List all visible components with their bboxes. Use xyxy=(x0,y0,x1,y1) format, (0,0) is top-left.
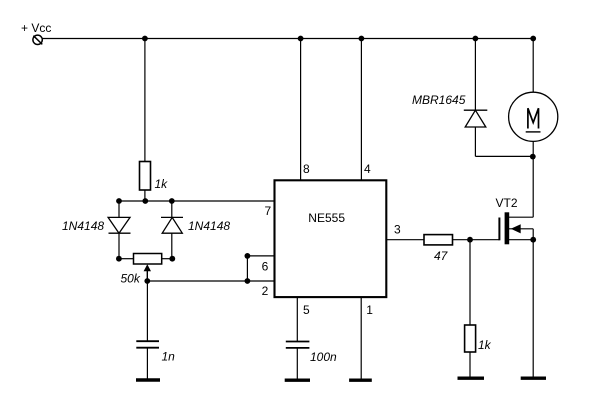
transistor VT2 body arrowhead xyxy=(511,224,521,233)
wire pin 1 to ground xyxy=(360,297,362,379)
junction node rail/pin8 xyxy=(298,36,304,42)
junction node rail/motor xyxy=(530,36,536,42)
svg-text:+ Vcc: + Vcc xyxy=(21,21,51,35)
potentiometer R2 50k body xyxy=(134,254,162,265)
junction node rail/MBR1645 xyxy=(473,36,479,42)
svg-text:6: 6 xyxy=(262,259,269,273)
junction node D1 top xyxy=(116,198,122,204)
ground (R4) xyxy=(458,377,485,380)
junction node pin6 link top xyxy=(245,253,251,259)
wire VD anode down xyxy=(474,127,476,156)
wire Vcc top rail xyxy=(42,38,533,40)
wire rail to VD cathode xyxy=(474,39,476,111)
wire D1 cathode to pot left xyxy=(118,233,120,259)
svg-text:7: 7 xyxy=(265,204,272,218)
diode VD MBR1645 xyxy=(464,110,488,127)
wire rail to motor xyxy=(532,39,534,93)
junction node rail/R1 xyxy=(142,36,148,42)
svg-text:MBR1645: MBR1645 xyxy=(412,93,466,107)
ground (C2) xyxy=(285,379,310,382)
svg-text:4: 4 xyxy=(364,162,371,176)
svg-text:1k: 1k xyxy=(478,338,492,352)
junction node motor/drain xyxy=(530,154,536,160)
junction node pin2/pin6 link xyxy=(245,278,251,284)
wire pin 4 xyxy=(360,39,362,181)
svg-text:1n: 1n xyxy=(162,350,176,364)
wire node to R4 top xyxy=(469,240,471,325)
wire D2 cathode xyxy=(171,201,173,217)
wire D1 anode xyxy=(118,201,120,217)
wire C1 to ground xyxy=(146,348,148,379)
svg-text:VT2: VT2 xyxy=(496,196,518,210)
transistor VT2 source lead xyxy=(509,239,533,241)
junction node R1/rail xyxy=(142,198,148,204)
motor M1 letter M xyxy=(528,108,539,128)
svg-text:100n: 100n xyxy=(310,350,337,364)
wire wiper node down to C1 xyxy=(146,281,148,341)
svg-text:NE555: NE555 xyxy=(308,211,345,225)
ground (source) xyxy=(521,377,546,380)
wire C2 to ground xyxy=(296,348,298,379)
wire diode rail to pin 7 xyxy=(119,200,275,202)
junction node D2 top xyxy=(169,198,175,204)
capacitor C1 1n xyxy=(136,341,159,348)
svg-text:1N4148: 1N4148 xyxy=(62,219,104,233)
wire VD anode to drain node xyxy=(475,155,533,157)
junction node wiper/C1 xyxy=(144,278,150,284)
svg-text:3: 3 xyxy=(394,223,401,237)
wire to pin 6 xyxy=(247,255,274,257)
wire rail to R1 top xyxy=(144,39,146,162)
capacitor C2 100n xyxy=(286,342,310,348)
diode D1 1N4148 xyxy=(108,217,130,233)
wire pin 3 xyxy=(386,239,424,241)
svg-text:47: 47 xyxy=(434,249,449,263)
potentiometer wiper arrow xyxy=(144,264,151,281)
wire body to source xyxy=(532,229,534,240)
svg-text:5: 5 xyxy=(303,303,310,317)
transistor VT2 channel bar xyxy=(505,212,510,244)
motor M1 body xyxy=(509,92,558,141)
junction node source xyxy=(530,237,536,243)
wire D2 anode to pot right xyxy=(171,233,173,259)
svg-text:1N4148: 1N4148 xyxy=(188,219,230,233)
wire pot left lead xyxy=(119,258,134,260)
wire pot right lead xyxy=(162,258,173,260)
diode D2 1N4148 xyxy=(161,217,183,233)
resistor R1 1k xyxy=(140,162,151,191)
junction node pot left xyxy=(116,256,122,262)
ground (C1) xyxy=(136,378,160,381)
svg-text:2: 2 xyxy=(262,284,269,298)
resistor R3 47 xyxy=(424,235,453,245)
wire motor to drain node xyxy=(532,141,534,217)
motor M1 underline xyxy=(526,131,541,133)
ground (pin1) xyxy=(349,379,372,382)
transistor VT2 drain lead xyxy=(509,216,533,218)
svg-text:1: 1 xyxy=(366,303,373,317)
op-amp U1 NE555 box xyxy=(275,180,387,297)
wire pin 5 xyxy=(296,297,298,341)
junction node pot right xyxy=(169,256,175,262)
wire R3 to gate xyxy=(453,239,500,241)
transistor VT2 body arrow lead xyxy=(509,228,533,230)
wire source to ground xyxy=(532,240,534,377)
wire pin 8 xyxy=(300,39,302,181)
junction node rail/pin4 xyxy=(359,36,365,42)
power terminal Vcc xyxy=(33,35,42,44)
wire R4 to ground xyxy=(469,352,471,377)
transistor VT2 gate electrode xyxy=(498,218,500,241)
wire pin6-pin2 link vertical xyxy=(246,256,248,281)
wire wiper to pin 2 xyxy=(147,280,274,282)
junction node gate/R4 xyxy=(467,237,473,243)
svg-text:50k: 50k xyxy=(121,272,141,286)
svg-text:8: 8 xyxy=(303,162,310,176)
svg-text:1k: 1k xyxy=(155,177,169,191)
resistor R4 1k xyxy=(465,325,476,352)
wire R1 bottom to node rail xyxy=(144,190,146,201)
